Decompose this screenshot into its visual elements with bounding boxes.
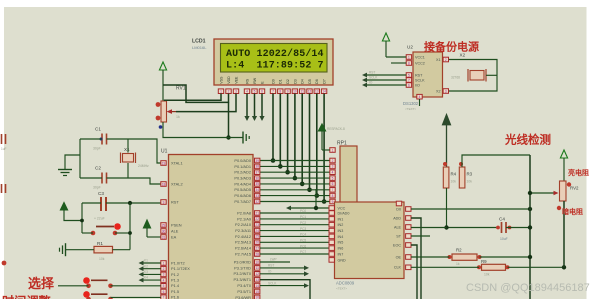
wire P1.0-P1.3 key nets with terminals xyxy=(139,259,161,283)
svg-text:8: 8 xyxy=(408,61,410,65)
svg-text:P1.0/T2: P1.0/T2 xyxy=(171,260,185,265)
svg-text:VSS: VSS xyxy=(219,76,223,84)
svg-text:IN5: IN5 xyxy=(338,241,344,245)
svg-text:P3.0/RXD: P3.0/RXD xyxy=(234,259,251,264)
svg-text:30pF: 30pF xyxy=(93,186,101,190)
wire K3 net xyxy=(111,296,161,298)
resistor R4 xyxy=(443,162,457,188)
light potentiometer RV2 xyxy=(554,181,580,210)
svg-text:P1.3: P1.3 xyxy=(171,278,179,283)
svg-text:10uF: 10uF xyxy=(500,237,508,241)
svg-text:P0.2/AD2: P0.2/AD2 xyxy=(234,170,251,175)
svg-text:ALE: ALE xyxy=(394,225,402,229)
wire U3 VCC terminal xyxy=(286,189,329,210)
svg-text:6: 6 xyxy=(332,182,334,186)
wire C2 net to XTAL2 xyxy=(80,177,102,179)
capacitor C1 xyxy=(93,127,107,151)
svg-text:P1.4: P1.4 xyxy=(171,283,180,288)
wire K2 net xyxy=(111,285,161,287)
resistor R3 xyxy=(459,162,473,188)
ground (crystal caps) xyxy=(58,170,72,176)
svg-text:11: 11 xyxy=(301,90,305,94)
svg-text:RST: RST xyxy=(268,264,274,268)
svg-text:19: 19 xyxy=(162,161,166,165)
svg-text:EA: EA xyxy=(171,234,177,239)
wire R4 bottom to C4 xyxy=(447,188,500,228)
svg-text:C4: C4 xyxy=(499,217,505,222)
svg-text:U2: U2 xyxy=(407,45,413,50)
svg-text:VCC1: VCC1 xyxy=(415,55,425,59)
svg-text:22: 22 xyxy=(255,217,259,221)
svg-text:10: 10 xyxy=(255,260,259,264)
wire R3 top to right bus xyxy=(462,155,530,167)
svg-text:D6: D6 xyxy=(315,79,319,84)
wire VDD drop to ground rail xyxy=(228,102,230,137)
svg-text:K1: K1 xyxy=(144,259,148,263)
svg-text:D3: D3 xyxy=(293,79,297,84)
svg-text:XTAL2: XTAL2 xyxy=(171,181,183,186)
svg-text:P0.3/AD3: P0.3/AD3 xyxy=(234,176,251,181)
svg-text:2: 2 xyxy=(228,90,230,94)
wire RST row through C3 xyxy=(82,202,101,204)
svg-text:1: 1 xyxy=(408,55,410,59)
svg-text:35: 35 xyxy=(255,182,259,186)
svg-text:IO: IO xyxy=(369,81,373,85)
svg-text:IN6: IN6 xyxy=(338,247,344,251)
wire VSS net xyxy=(164,94,221,101)
svg-text:10k: 10k xyxy=(451,180,457,184)
svg-text:3: 3 xyxy=(163,273,165,277)
svg-text:AUTO 12022/85/14: AUTO 12022/85/14 xyxy=(226,48,324,60)
svg-text:L:4 117:89:52 7: L:4 117:89:52 7 xyxy=(226,60,324,71)
svg-text:X2: X2 xyxy=(436,89,441,93)
svg-text:P0.0/AD0: P0.0/AD0 xyxy=(234,158,251,163)
wire reset button net xyxy=(82,232,93,234)
ground (R1) xyxy=(60,243,66,256)
svg-text:18: 18 xyxy=(162,182,166,186)
svg-text:X1: X1 xyxy=(436,58,441,62)
svg-text:21: 21 xyxy=(255,211,259,215)
svg-text:7: 7 xyxy=(332,188,334,192)
crystal X2 xyxy=(451,53,486,82)
microcontroller U1 xyxy=(161,149,253,299)
wire P0 bus rows U1 to RP1 xyxy=(260,161,330,202)
wire X1 stubs xyxy=(127,139,129,153)
power arrow RP1 common xyxy=(318,124,345,150)
svg-text:RST: RST xyxy=(171,199,179,204)
svg-text:24: 24 xyxy=(255,229,259,233)
svg-text:PC2: PC2 xyxy=(300,221,306,225)
svg-text:P3.3/INT1: P3.3/INT1 xyxy=(233,277,251,282)
svg-text:3: 3 xyxy=(332,165,334,169)
svg-text:2: 2 xyxy=(332,159,334,163)
RTC chip U2 DS1302 xyxy=(403,45,449,112)
svg-text:XTAL1: XTAL1 xyxy=(171,160,183,165)
svg-text:P3.6/WR: P3.6/WR xyxy=(235,295,251,299)
svg-text:7: 7 xyxy=(163,296,165,299)
svg-text:R3: R3 xyxy=(467,172,473,177)
svg-text:PC3: PC3 xyxy=(300,227,306,231)
svg-text:P1.2: P1.2 xyxy=(171,272,179,277)
svg-text:P1.1/T2EX: P1.1/T2EX xyxy=(171,266,190,271)
svg-text:P0.6/AD6: P0.6/AD6 xyxy=(234,193,251,198)
svg-text:RESPACK-8: RESPACK-8 xyxy=(327,127,345,131)
svg-text:9: 9 xyxy=(163,200,165,204)
svg-text:C3: C3 xyxy=(98,191,104,196)
svg-text:K2: K2 xyxy=(144,264,148,268)
wire U3 D0 row to right bus xyxy=(411,208,530,210)
svg-text:SCLK: SCLK xyxy=(268,281,277,285)
svg-text:DI/AD0: DI/AD0 xyxy=(338,211,350,215)
svg-text:14: 14 xyxy=(255,284,259,288)
svg-text:D1: D1 xyxy=(279,79,283,84)
svg-text:3: 3 xyxy=(445,89,447,93)
wire VEE net to RV1 wiper xyxy=(176,94,236,112)
svg-text:P2.5/A13: P2.5/A13 xyxy=(235,240,251,245)
button at left edge xyxy=(2,261,7,266)
resistor pack RP1 xyxy=(330,141,357,204)
svg-text:6: 6 xyxy=(408,83,410,87)
svg-text:ST: ST xyxy=(396,234,401,238)
svg-text:D0: D0 xyxy=(271,79,275,84)
svg-text:R2: R2 xyxy=(456,248,462,253)
svg-text:VCC: VCC xyxy=(338,206,346,210)
svg-text:PC0: PC0 xyxy=(300,209,306,213)
svg-text:R9: R9 xyxy=(481,259,487,264)
svg-text:10k: 10k xyxy=(99,257,105,261)
wire RS/RW/E stubs with terminals xyxy=(244,94,264,122)
svg-text:P0.4/AD4: P0.4/AD4 xyxy=(234,181,251,186)
svg-text:K4: K4 xyxy=(144,276,148,280)
svg-text:14: 14 xyxy=(322,90,326,94)
svg-text:9: 9 xyxy=(287,90,289,94)
svg-text:12: 12 xyxy=(308,90,312,94)
svg-text:D7: D7 xyxy=(323,79,327,84)
push button K3 xyxy=(83,291,113,299)
capacitor C3 electrolytic xyxy=(94,191,106,221)
svg-text:38: 38 xyxy=(255,165,259,169)
svg-text:4: 4 xyxy=(246,90,248,94)
power arrow (reset) xyxy=(60,203,82,221)
svg-text:RST: RST xyxy=(369,71,375,75)
svg-text:PC5: PC5 xyxy=(300,239,306,243)
svg-text:P0.1/AD1: P0.1/AD1 xyxy=(234,164,251,169)
svg-text:I/O: I/O xyxy=(415,83,420,87)
svg-text:+ 22uF: + 22uF xyxy=(94,217,105,221)
svg-text:10k: 10k xyxy=(467,180,473,184)
wire right vertical bus xyxy=(529,155,531,299)
svg-text:DS1302: DS1302 xyxy=(403,101,419,106)
svg-text:X2: X2 xyxy=(460,53,466,58)
U1 right pin boxes and names xyxy=(233,158,259,299)
svg-text:36: 36 xyxy=(255,176,259,180)
svg-text:X1: X1 xyxy=(124,147,130,152)
svg-text:D0: D0 xyxy=(396,207,401,211)
wire reset right vertical xyxy=(129,203,131,250)
power VCC arrow (contrast supply) xyxy=(159,62,166,101)
svg-text:P2.7/A15: P2.7/A15 xyxy=(235,251,251,256)
svg-text:1: 1 xyxy=(163,261,165,265)
wire U3 ALE row join xyxy=(411,227,447,229)
svg-text:SCLK: SCLK xyxy=(369,76,378,80)
svg-text:30pF: 30pF xyxy=(93,147,101,151)
potentiometer RV1 xyxy=(156,86,186,129)
svg-text:1k: 1k xyxy=(176,115,180,119)
svg-text:IN4: IN4 xyxy=(338,235,344,239)
svg-text:10k: 10k xyxy=(484,272,490,276)
svg-text:RV1: RV1 xyxy=(176,86,186,92)
svg-text:ADC0809: ADC0809 xyxy=(336,281,355,286)
power arrow RV2 xyxy=(560,150,567,181)
svg-text:2: 2 xyxy=(445,58,447,62)
push button K2 xyxy=(83,277,113,288)
svg-text:ALE: ALE xyxy=(171,228,179,233)
wire P3 net stubs with labels xyxy=(260,258,310,299)
svg-text:P2.1/A9: P2.1/A9 xyxy=(237,216,251,221)
svg-text:P2.3/A11: P2.3/A11 xyxy=(235,228,251,233)
svg-text:5: 5 xyxy=(332,176,334,180)
svg-text:4: 4 xyxy=(163,278,165,282)
U1 left pin boxes and names xyxy=(161,160,190,299)
svg-text:PC7: PC7 xyxy=(300,250,306,254)
wire LCD data bus D0-D7 xyxy=(271,94,327,204)
svg-text:P3.2/INT0: P3.2/INT0 xyxy=(233,271,251,276)
svg-text:亮电阻: 亮电阻 xyxy=(568,168,589,177)
svg-text:SCLK: SCLK xyxy=(415,78,425,82)
svg-text:31: 31 xyxy=(162,235,166,239)
svg-text:10: 10 xyxy=(293,90,297,94)
svg-text:39: 39 xyxy=(255,159,259,163)
svg-text:PC6: PC6 xyxy=(300,244,306,248)
svg-text:P3.1/TXD: P3.1/TXD xyxy=(234,265,251,270)
svg-text:IO: IO xyxy=(268,270,272,274)
svg-text:34: 34 xyxy=(255,188,259,192)
svg-text:1: 1 xyxy=(332,148,334,152)
svg-text:4: 4 xyxy=(332,171,334,175)
svg-text:暗电阻: 暗电阻 xyxy=(562,207,583,216)
svg-text:D2: D2 xyxy=(286,79,290,84)
svg-text:CSDN @QQ1894456187: CSDN @QQ1894456187 xyxy=(466,282,590,294)
svg-text:1uF: 1uF xyxy=(1,147,7,151)
svg-text:1: 1 xyxy=(220,90,222,94)
svg-text:3: 3 xyxy=(235,90,237,94)
svg-text:R1: R1 xyxy=(97,241,103,246)
svg-text:32768: 32768 xyxy=(451,76,460,80)
wire R9 net xyxy=(411,266,479,268)
LCD1 pin number boxes 1-14 xyxy=(218,89,326,94)
wire P2 bus rows U1 to U3 xyxy=(260,209,329,254)
svg-text:LWP: LWP xyxy=(270,258,277,262)
svg-text:光线检测: 光线检测 xyxy=(504,133,551,147)
svg-text:8: 8 xyxy=(332,194,334,198)
wire C4 right xyxy=(506,227,530,229)
svg-text:P2.6/A14: P2.6/A14 xyxy=(235,246,252,251)
wire U3 row drops xyxy=(411,218,421,299)
U3 top pin box xyxy=(396,201,401,206)
svg-text:24MHz: 24MHz xyxy=(138,164,149,168)
wire RV1 bottom to ground xyxy=(163,122,243,138)
svg-text:IN3: IN3 xyxy=(338,229,344,233)
svg-text:P3.4/T0: P3.4/T0 xyxy=(237,283,251,288)
svg-text:IN1: IN1 xyxy=(338,217,344,221)
svg-text:GND: GND xyxy=(338,258,347,262)
wire C1-C2 common xyxy=(79,139,81,178)
svg-text:8: 8 xyxy=(279,90,281,94)
svg-text:IN7: IN7 xyxy=(338,252,344,256)
push button K1 (reset) xyxy=(91,223,121,235)
svg-text:RW: RW xyxy=(253,77,257,84)
svg-text:13: 13 xyxy=(315,90,319,94)
svg-text:D4: D4 xyxy=(301,79,305,84)
wire R2 net xyxy=(411,256,450,258)
LCD1 pin name labels xyxy=(219,76,326,84)
wire U2 VCC2 stub xyxy=(391,62,406,64)
wire X2 loop xyxy=(449,60,497,92)
svg-text:28: 28 xyxy=(255,252,259,256)
svg-text:PC1: PC1 xyxy=(300,215,306,219)
svg-text:6: 6 xyxy=(261,90,263,94)
svg-text:U1: U1 xyxy=(161,149,168,155)
component at left edge (clipped) xyxy=(2,184,6,193)
svg-text:29: 29 xyxy=(162,223,166,227)
svg-text:7: 7 xyxy=(272,90,274,94)
capacitor at left edge (clipped) xyxy=(1,134,7,151)
ADC chip U3 ADC0809 xyxy=(329,202,411,291)
svg-text:26: 26 xyxy=(255,241,259,245)
power arrow U2 VCC xyxy=(382,33,406,57)
svg-text:37: 37 xyxy=(255,171,259,175)
svg-text:4: 4 xyxy=(419,95,421,99)
svg-text:32: 32 xyxy=(255,200,259,204)
svg-text:1k: 1k xyxy=(456,262,460,266)
svg-text:33: 33 xyxy=(255,194,259,198)
crystal X1 xyxy=(121,147,150,168)
svg-text:<TEXT>: <TEXT> xyxy=(336,287,347,291)
svg-text:IN2: IN2 xyxy=(338,223,344,227)
svg-text:<TEXT>: <TEXT> xyxy=(405,107,416,111)
wire R1 net xyxy=(113,249,131,251)
svg-text:LM016L: LM016L xyxy=(192,45,207,50)
svg-text:时间调整: 时间调整 xyxy=(2,294,52,299)
wire C1 net to XTAL1 xyxy=(80,138,102,140)
wire RV2 bottom xyxy=(563,201,565,267)
svg-text:15: 15 xyxy=(255,290,259,294)
svg-text:P1.6: P1.6 xyxy=(171,295,179,299)
svg-text:13: 13 xyxy=(255,278,259,282)
svg-text:C1: C1 xyxy=(95,127,101,132)
svg-text:VEE: VEE xyxy=(234,76,238,84)
svg-text:K3: K3 xyxy=(144,270,148,274)
svg-text:P2.4/A12: P2.4/A12 xyxy=(235,234,251,239)
wire reset left vertical xyxy=(81,203,83,233)
svg-text:EOC: EOC xyxy=(393,243,401,247)
ground (LCD/RV1 rail) xyxy=(243,132,249,144)
svg-text:PC4: PC4 xyxy=(300,233,306,237)
svg-text:23: 23 xyxy=(255,223,259,227)
svg-text:P3.5/T1: P3.5/T1 xyxy=(237,289,251,294)
capacitor C4 xyxy=(496,217,511,242)
capacitor C2 xyxy=(93,166,107,190)
svg-text:P2.0/A8: P2.0/A8 xyxy=(237,210,251,215)
svg-text:LCD1: LCD1 xyxy=(192,39,206,45)
LCD display LCD1 (LM016L) xyxy=(192,39,333,86)
svg-text:2: 2 xyxy=(163,267,165,271)
svg-text:5: 5 xyxy=(408,73,410,77)
svg-text:D5: D5 xyxy=(308,79,312,84)
resistor R2 xyxy=(448,248,482,267)
svg-text:RV2: RV2 xyxy=(570,186,579,191)
svg-text:C2: C2 xyxy=(95,166,101,171)
svg-text:25: 25 xyxy=(255,235,259,239)
svg-text:R4: R4 xyxy=(451,172,457,177)
svg-text:5: 5 xyxy=(254,90,256,94)
svg-text:VCC2: VCC2 xyxy=(415,61,425,65)
svg-text:9: 9 xyxy=(332,200,334,204)
svg-text:P0.5/AD5: P0.5/AD5 xyxy=(234,187,251,192)
wire VDD net xyxy=(163,85,229,102)
power arrow (R4 top) xyxy=(442,114,451,167)
svg-text:11: 11 xyxy=(256,266,260,270)
svg-text:PSEN: PSEN xyxy=(171,222,182,227)
wire RV2 wiper xyxy=(530,192,554,194)
svg-text:RS: RS xyxy=(245,78,249,84)
svg-text:30: 30 xyxy=(162,229,166,233)
svg-text:27: 27 xyxy=(255,246,259,250)
svg-text:选择: 选择 xyxy=(28,276,55,291)
svg-text:7: 7 xyxy=(408,78,410,82)
svg-text:OE: OE xyxy=(396,255,402,259)
svg-text:接备份电源: 接备份电源 xyxy=(424,40,479,54)
svg-text:P2.2/A10: P2.2/A10 xyxy=(235,222,252,227)
svg-text:P1.5: P1.5 xyxy=(171,289,179,294)
resistor R1 xyxy=(94,241,113,261)
svg-text:6: 6 xyxy=(163,290,165,294)
svg-text:5: 5 xyxy=(163,284,165,288)
svg-text:CLK: CLK xyxy=(394,266,402,270)
wire U2 RST/SCLK/IO terminals xyxy=(362,71,406,88)
power arrow (EA pin) xyxy=(143,220,160,237)
svg-text:VDD: VDD xyxy=(227,76,231,84)
svg-text:RST: RST xyxy=(415,73,423,77)
svg-text:P0.7/AD7: P0.7/AD7 xyxy=(234,199,251,204)
resistor R9 xyxy=(477,259,510,276)
svg-text:12: 12 xyxy=(255,272,259,276)
svg-text:ADD: ADD xyxy=(393,216,401,220)
